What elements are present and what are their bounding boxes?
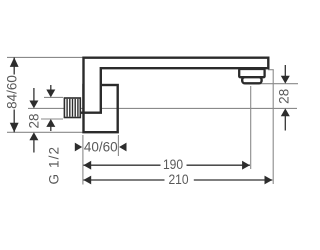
aerator step 1: [239, 69, 264, 77]
wire 210 vertical extension: [272, 70, 274, 184]
dimension 84/60 arrow down: [10, 123, 19, 133]
dimension 84/60 line bottom: [13, 110, 15, 133]
wire plate bottom extension line: [7, 131, 83, 133]
wall plate: [84, 85, 118, 132]
dimension 28 right tail bottom: [284, 116, 286, 131]
wire 190 vertical extension: [250, 86, 252, 169]
svg-text:G 1/2: G 1/2: [47, 146, 62, 185]
dimension 28 left arrow down: [29, 101, 38, 109]
dimension 28 left arrow up: [29, 132, 38, 140]
spout body outline: [84, 58, 269, 113]
dimension 210 line left: [83, 179, 164, 181]
dimension 190 arrow right: [242, 161, 250, 170]
dimension 40/60 arrow left: [119, 143, 126, 152]
dimension G1/2 arrow up: [46, 119, 55, 127]
wire right plate vertical extension: [117, 135, 119, 156]
wire arm corner stub: [268, 69, 274, 71]
dimension 210 arrow left: [83, 176, 91, 185]
dimension G1/2 top tail: [50, 85, 52, 90]
wire thread bottom extension: [41, 118, 63, 120]
dimension 40/60 arrow right: [75, 143, 82, 152]
dimension 190 arrow left: [83, 161, 91, 170]
svg-text:40/60: 40/60: [84, 139, 118, 154]
thread hatch lines: [67, 99, 78, 117]
threaded connector G1/2: [64, 98, 80, 118]
dimension 190 line left: [83, 164, 160, 166]
dimension G1/2 arrow down: [46, 90, 55, 98]
wire top extension line: [7, 56, 83, 58]
dimension 210 line right: [194, 179, 272, 181]
dimension 28 right tail top: [284, 65, 286, 76]
dimension 28 left tail: [33, 88, 35, 102]
svg-text:28: 28: [276, 89, 291, 104]
dimension 84/60 line top: [13, 57, 15, 74]
dimension 190 line right: [187, 164, 250, 166]
svg-text:84/60: 84/60: [5, 75, 20, 109]
wire thread top extension: [44, 96, 63, 98]
wire leg bottom bar to thread: [80, 111, 84, 113]
dimension 28 right arrow down: [281, 76, 290, 84]
svg-text:28: 28: [26, 113, 41, 128]
dimension 28 right arrow up: [281, 108, 290, 116]
dimension 210 arrow right: [265, 176, 273, 185]
svg-text:190: 190: [163, 156, 183, 172]
dimension G1/2 bottom tail: [50, 127, 52, 132]
dimension 28 left bottom tail: [33, 140, 35, 153]
svg-text:210: 210: [168, 171, 188, 187]
wire aerator bottom extension: [252, 83, 298, 85]
dimension 84/60 arrow up: [10, 57, 19, 67]
wire left vertical extension: [82, 135, 84, 185]
node axis centerline: [28, 107, 297, 109]
aerator step 2: [242, 77, 261, 83]
